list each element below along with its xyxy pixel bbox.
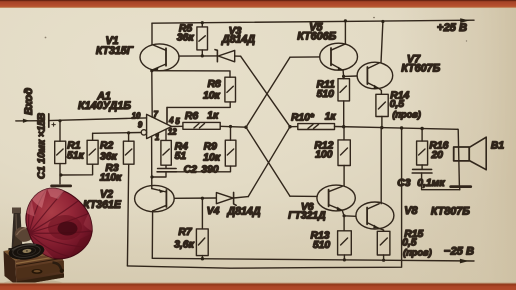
svg-text:R10*: R10* [291, 112, 315, 123]
svg-text:510: 510 [317, 89, 335, 100]
svg-text:1к: 1к [207, 111, 219, 122]
svg-text:3,6к: 3,6к [174, 239, 194, 250]
resistor R1 51k [55, 121, 85, 184]
resistor R5 36k [177, 21, 208, 57]
+25V supply rail [152, 18, 474, 34]
svg-text:С2: С2 [184, 165, 198, 176]
svg-text:КТ606Б: КТ606Б [297, 30, 336, 42]
svg-text:12: 12 [168, 127, 177, 136]
wire V2 base line [174, 197, 216, 199]
svg-text:10: 10 [132, 112, 141, 121]
ground symbol at R1/R2 [52, 184, 71, 187]
resistor R3 110k [100, 133, 134, 266]
svg-text:510: 510 [313, 240, 331, 251]
capacitor C3 0.1mk [397, 165, 459, 190]
svg-text:1: 1 [155, 133, 159, 142]
svg-text:(пров): (пров) [392, 110, 421, 120]
gramophone horn bell [26, 188, 92, 259]
resistor R12 100 [314, 127, 350, 186]
resistor R11 510 [317, 76, 350, 126]
resistor R8 10k [167, 77, 236, 123]
svg-text:1к: 1к [325, 112, 337, 123]
wire diagonal R6 node to V5 base [246, 57, 290, 127]
wire R6 output node [220, 125, 246, 128]
resistor R16 20 [417, 129, 449, 166]
transistor V7 KT607B [357, 20, 441, 94]
svg-text:110к: 110к [100, 172, 123, 183]
wire signal line C1 to op-amp pin 10 [49, 118, 147, 121]
wire output rail [335, 127, 458, 130]
top border band [0, 0, 516, 8]
gramophone support column [8, 208, 27, 258]
wire op-amp pin 9 line [93, 132, 141, 135]
svg-text:ГТ321Д: ГТ321Д [288, 210, 326, 221]
svg-text:(пров): (пров) [403, 247, 432, 257]
svg-text:С1 10мк ×15В: С1 10мк ×15В [37, 113, 48, 179]
capacitor C2 390 [150, 165, 218, 179]
svg-text:R9: R9 [204, 142, 218, 153]
svg-text:R6: R6 [185, 111, 199, 122]
svg-text:Д814Д: Д814Д [221, 34, 255, 46]
svg-text:КТ807Б: КТ807Б [431, 206, 470, 218]
svg-text:9: 9 [138, 121, 143, 130]
svg-text:Д814Д: Д814Д [227, 206, 261, 218]
record disc [8, 241, 46, 261]
svg-text:V4: V4 [207, 206, 220, 217]
svg-text:V8: V8 [404, 205, 417, 217]
wire diagonal R6 node to V6 base [246, 127, 290, 196]
zener diode V3 D814D [215, 26, 255, 62]
resistor R9 10k [177, 126, 236, 171]
resistor R14 0.5 [376, 90, 421, 129]
resistor R6 1k [183, 111, 220, 130]
wire V1 emitter down to op-amp pin 7 [151, 71, 153, 118]
svg-text:+25 В: +25 В [437, 22, 467, 34]
bottom border band [0, 283, 516, 290]
paper specks [45, 37, 47, 39]
zener diode V4 D814D [207, 192, 261, 217]
wire op-amp pin1 down to V2 [151, 136, 153, 188]
resistor R10* 1k [290, 112, 336, 130]
svg-text:10к: 10к [203, 90, 221, 101]
resistor R2 36k [59, 133, 117, 176]
speaker B1 [451, 129, 505, 189]
svg-text:R2: R2 [100, 141, 114, 152]
resistor R7 3.6k [174, 198, 208, 260]
svg-text:−25 В: −25 В [444, 245, 474, 257]
svg-text:R8: R8 [208, 79, 222, 90]
transistor V5 KT606B [297, 19, 357, 78]
wire V1 base line [179, 55, 217, 57]
resistor R4 51 [161, 140, 188, 165]
gramophone crank handle [53, 263, 65, 273]
input terminal Вход [16, 88, 44, 123]
node R10 left [288, 125, 291, 128]
wire V5 base [290, 56, 320, 58]
svg-text:5: 5 [175, 117, 180, 126]
-25V supply rail [152, 245, 474, 263]
wire V1 emitter line to R8 [152, 71, 230, 78]
svg-text:0,1мк: 0,1мк [417, 178, 445, 189]
svg-text:R7: R7 [178, 227, 193, 238]
svg-text:В1: В1 [491, 141, 505, 152]
transistor V2 KT361E [83, 185, 174, 258]
svg-text:51к: 51к [67, 151, 85, 162]
transistor V6 GT321D [288, 185, 356, 221]
svg-text:36к: 36к [100, 151, 118, 162]
svg-text:Вход: Вход [23, 88, 35, 115]
svg-text:С3: С3 [397, 178, 411, 189]
wire diagonal V4 node to R10 left node [248, 127, 290, 197]
svg-text:7: 7 [154, 110, 159, 119]
wire diagonal V3 node to R10 left node [241, 56, 290, 127]
resistor R13 510 [310, 216, 351, 262]
resistor R15 0.5 [377, 229, 431, 262]
gramophone shadow [2, 280, 64, 289]
svg-text:390: 390 [201, 165, 219, 176]
svg-text:К140УД1Б: К140УД1Б [78, 100, 131, 112]
svg-text:51: 51 [175, 151, 187, 162]
transistor V8 KT807B [356, 128, 470, 232]
wire feedback bottom rail [127, 128, 401, 268]
svg-text:100: 100 [315, 150, 333, 161]
svg-text:10к: 10к [203, 152, 221, 163]
svg-text:КТ607Б: КТ607Б [401, 63, 440, 75]
transistor V1 KT315G [96, 23, 179, 70]
svg-text:4: 4 [168, 116, 174, 125]
capacitor C1 10mk x 15V [37, 113, 56, 179]
gramophone horn throat [13, 227, 33, 250]
op-amp A1 K140UD1B [78, 91, 183, 142]
svg-text:КТ361Е: КТ361Е [83, 199, 122, 211]
svg-text:36к: 36к [177, 33, 195, 44]
gramophone wooden box [4, 244, 65, 286]
svg-text:20: 20 [430, 150, 443, 161]
svg-text:КТ315Г: КТ315Г [96, 45, 134, 57]
